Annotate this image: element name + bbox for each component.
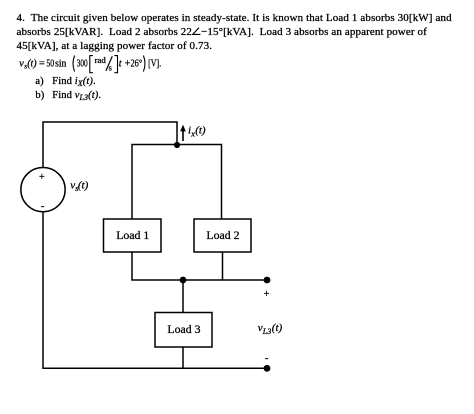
svg-text:-: - — [265, 352, 269, 364]
svg-text:+: + — [39, 172, 45, 183]
svg-text:(t): (t) — [78, 180, 89, 192]
svg-text:26°: 26° — [131, 58, 143, 69]
svg-text:=: = — [39, 58, 45, 69]
svg-text:Load 2: Load 2 — [206, 228, 239, 242]
svg-text:sin: sin — [55, 58, 66, 69]
svg-text:(t): (t) — [195, 125, 206, 137]
svg-text:t: t — [119, 58, 123, 69]
svg-text:300: 300 — [77, 58, 88, 69]
svg-text:rad: rad — [95, 55, 107, 65]
svg-text:+: + — [264, 289, 270, 300]
svg-text:Load 3: Load 3 — [167, 322, 200, 336]
svg-text:Load 1: Load 1 — [116, 228, 149, 242]
svg-text:L3: L3 — [262, 327, 271, 336]
svg-text:[V].: [V]. — [148, 58, 161, 69]
svg-text:(t): (t) — [27, 58, 37, 69]
svg-text:-: - — [41, 200, 45, 212]
svg-text:50: 50 — [46, 58, 54, 69]
svg-text:(t): (t) — [272, 322, 283, 334]
